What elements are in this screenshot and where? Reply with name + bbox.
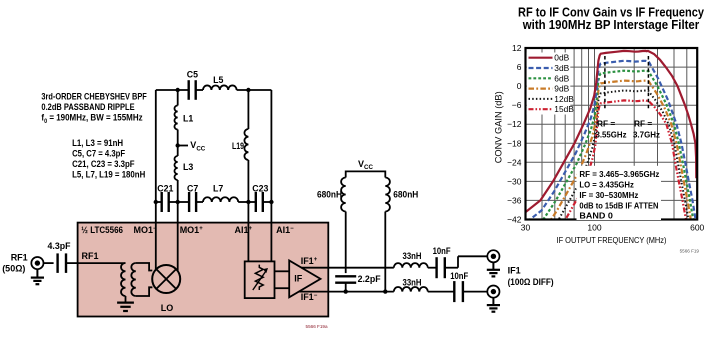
svg-text:−12: −12	[507, 119, 522, 129]
svg-text:10nF: 10nF	[450, 271, 469, 281]
svg-text:C21: C21	[157, 184, 173, 194]
svg-text:CONV GAIN (dB): CONV GAIN (dB)	[494, 91, 504, 163]
svg-text:with 190MHz BP Interstage Filt: with 190MHz BP Interstage Filter	[522, 18, 700, 32]
svg-text:C7: C7	[187, 184, 198, 194]
svg-text:9dB: 9dB	[554, 84, 569, 94]
svg-text:0: 0	[517, 81, 522, 91]
svg-text:(50Ω): (50Ω)	[2, 264, 25, 274]
svg-text:LO: LO	[161, 303, 174, 313]
svg-text:RF =: RF =	[634, 118, 652, 128]
svg-text:100: 100	[587, 223, 601, 233]
svg-text:15dB: 15dB	[554, 104, 574, 114]
svg-text:3rd-ORDER CHEBYSHEV BPF: 3rd-ORDER CHEBYSHEV BPF	[41, 92, 147, 102]
svg-text:IF = 30–530MHz: IF = 30–530MHz	[579, 190, 638, 200]
svg-text:5566 F19: 5566 F19	[680, 249, 700, 254]
svg-text:680nH: 680nH	[317, 190, 342, 200]
svg-text:−30: −30	[507, 176, 522, 186]
svg-text:−24: −24	[507, 157, 522, 167]
svg-text:4.3pF: 4.3pF	[48, 241, 72, 251]
svg-text:6dB: 6dB	[554, 73, 569, 83]
svg-text:600: 600	[690, 223, 704, 233]
svg-text:RF1: RF1	[11, 252, 28, 262]
svg-text:IF1: IF1	[508, 266, 521, 276]
svg-text:L3: L3	[183, 162, 193, 172]
svg-text:RF =: RF =	[597, 118, 615, 128]
svg-text:L7: L7	[213, 184, 223, 194]
svg-text:RF = 3.465–3.965GHz: RF = 3.465–3.965GHz	[579, 169, 659, 179]
svg-text:RF1: RF1	[82, 251, 99, 261]
svg-text:12dB: 12dB	[554, 94, 574, 104]
svg-text:BAND 0: BAND 0	[579, 211, 613, 221]
svg-text:33nH: 33nH	[403, 251, 422, 261]
svg-text:2.2pF: 2.2pF	[358, 274, 382, 284]
svg-text:½ LTC5566: ½ LTC5566	[81, 225, 123, 235]
svg-text:10nF: 10nF	[433, 246, 452, 256]
svg-text:(100Ω DIFF): (100Ω DIFF)	[508, 277, 554, 287]
svg-text:f0 = 190MHz, BW = 155MHz: f0 = 190MHz, BW = 155MHz	[41, 112, 143, 124]
svg-text:3.7GHz: 3.7GHz	[633, 130, 660, 140]
svg-text:33nH: 33nH	[403, 278, 422, 288]
svg-text:VCC: VCC	[358, 159, 373, 171]
svg-text:L19: L19	[232, 141, 244, 151]
svg-text:0dB: 0dB	[554, 53, 569, 63]
svg-text:L5: L5	[213, 75, 223, 85]
svg-text:L5, L7, L19 = 180nH: L5, L7, L19 = 180nH	[72, 169, 145, 179]
svg-text:3dB: 3dB	[554, 63, 569, 73]
svg-text:C21, C23 = 3.3pF: C21, C23 = 3.3pF	[72, 159, 135, 169]
svg-text:C23: C23	[252, 184, 268, 194]
svg-text:C5, C7 = 4.3pF: C5, C7 = 4.3pF	[72, 148, 125, 158]
svg-text:−18: −18	[507, 138, 522, 148]
svg-text:0.2dB PASSBAND RIPPLE: 0.2dB PASSBAND RIPPLE	[41, 102, 134, 112]
svg-text:3.55GHz: 3.55GHz	[596, 130, 627, 140]
svg-text:L1, L3 = 91nH: L1, L3 = 91nH	[72, 138, 123, 148]
svg-text:−6: −6	[512, 100, 522, 110]
svg-text:L1: L1	[183, 114, 193, 124]
svg-text:C5: C5	[187, 69, 198, 79]
svg-text:0dB to 15dB IF ATTEN: 0dB to 15dB IF ATTEN	[579, 201, 658, 211]
svg-text:VCC: VCC	[190, 140, 205, 152]
svg-text:−42: −42	[507, 215, 522, 225]
svg-text:6: 6	[517, 62, 522, 72]
svg-text:−36: −36	[507, 195, 522, 205]
svg-text:IF OUTPUT FREQUENCY (MHz): IF OUTPUT FREQUENCY (MHz)	[557, 235, 667, 245]
svg-text:680nH: 680nH	[393, 190, 418, 200]
svg-text:30: 30	[521, 223, 531, 233]
svg-text:IF: IF	[294, 274, 303, 284]
svg-text:5566 F19a: 5566 F19a	[306, 324, 328, 329]
svg-text:12: 12	[512, 43, 522, 53]
svg-text:LO = 3.435GHz: LO = 3.435GHz	[579, 180, 634, 190]
